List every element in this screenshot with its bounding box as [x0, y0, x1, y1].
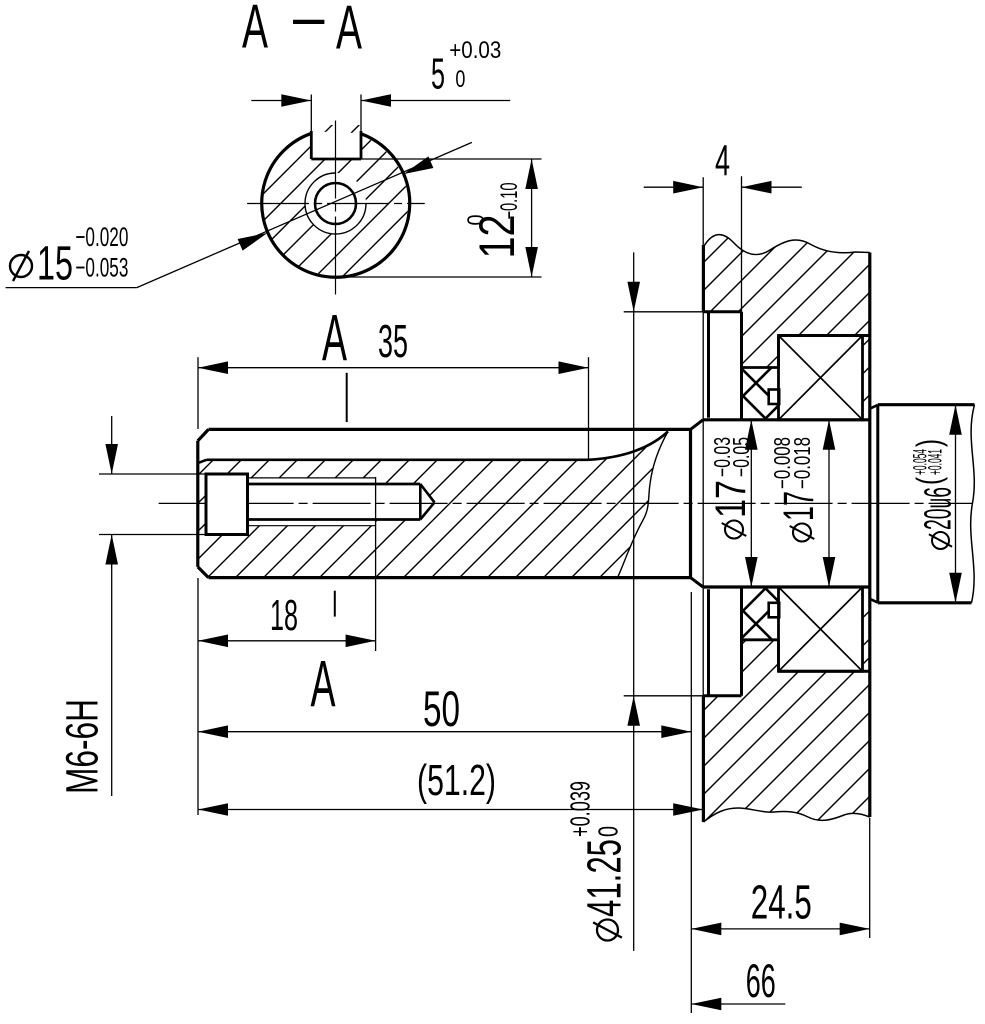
dimension 50 [690, 592, 692, 1013]
housing top wavy break edge [703, 235, 869, 255]
housing right face / shaft step dia17-dia20 [868, 253, 871, 818]
svg-text:17: 17 [707, 480, 755, 518]
tapped hole minor circle [315, 183, 356, 224]
cover plate lower [707, 589, 710, 696]
dimension 12 0/-0.10 [361, 158, 542, 160]
dimension 66 [691, 1003, 785, 1005]
bearing bore line top [779, 334, 870, 337]
hatch of shaft cross-section [250, 115, 425, 295]
centerline vertical of section circle [335, 121, 337, 297]
svg-text:A: A [242, 0, 268, 62]
section plane tick upper [346, 373, 348, 422]
shaft dia20 section [876, 405, 879, 603]
housing hatch top [700, 228, 875, 370]
svg-text:−0.10: −0.10 [496, 183, 523, 220]
keyway slot floor [311, 158, 361, 161]
shaft step face dia15->dia17 [689, 429, 692, 579]
seal cross-hatch top [740, 366, 780, 421]
svg-text:66: 66 [746, 954, 776, 1007]
thread major lines (thin) [248, 477, 376, 479]
svg-text:4: 4 [715, 137, 730, 186]
dimension dia20u6 (+0.054/+0.041) [955, 405, 957, 603]
dimension 24.5 [869, 818, 871, 938]
svg-text:): ) [911, 439, 949, 447]
dia15 text [10, 255, 32, 277]
shaft OD circle (keyway slot gap at top) [262, 133, 410, 277]
svg-text:−0.020: −0.020 [75, 222, 128, 252]
dimension (51.2) [702, 177, 704, 815]
fillet bottom [691, 578, 704, 587]
housing left face bottom [702, 696, 705, 822]
svg-text:+0.039: +0.039 [565, 781, 596, 837]
retaining ring square top [769, 390, 780, 405]
svg-text:50: 50 [423, 681, 460, 737]
svg-text:(: ( [911, 477, 949, 485]
leader dia15 -0.020/-0.053 [6, 287, 137, 289]
svg-text:A: A [311, 647, 336, 721]
svg-text:17: 17 [775, 491, 823, 521]
svg-text:A: A [322, 300, 347, 374]
broken-out section wavy line [618, 432, 669, 578]
dimension 4 [741, 176, 743, 312]
bearing bore line bottom [779, 670, 870, 673]
keyway slot walls [310, 95, 312, 160]
svg-text:+0.03: +0.03 [449, 37, 501, 64]
housing bottom wavy break edge [703, 808, 869, 822]
dimension 18 [375, 477, 377, 651]
svg-text:41.25: 41.25 [579, 839, 632, 917]
svg-text:M6-6H: M6-6H [56, 699, 107, 794]
svg-text:−0.053: −0.053 [75, 253, 128, 283]
dimension dia17 -0.03/-0.05 [750, 420, 752, 587]
svg-text:+0.041: +0.041 [926, 449, 947, 475]
bearing box bottom with X [779, 587, 863, 671]
bearing box top with X [779, 336, 863, 420]
tapped hole M6 counterbore box [206, 474, 248, 535]
retaining ring square bottom [769, 603, 780, 618]
keyway floor line [199, 460, 207, 463]
svg-text:18: 18 [270, 591, 298, 640]
cover plate upper [707, 313, 710, 418]
svg-text:0: 0 [463, 215, 490, 226]
housing left face top [702, 245, 705, 312]
svg-text:−0.05: −0.05 [728, 437, 754, 477]
svg-text:24.5: 24.5 [751, 877, 812, 930]
dimension dia17 -0.008/-0.018 [828, 420, 830, 587]
housing sliver hatch right of bearings [864, 339, 870, 345]
svg-text:20u6: 20u6 [918, 487, 960, 530]
dia20 wavy break right [971, 405, 975, 603]
svg-text:15: 15 [37, 237, 73, 290]
main axis centerline [159, 502, 972, 504]
seal seat edges top [742, 366, 779, 369]
seal cross-hatch bottom [740, 585, 780, 641]
bore dia41.25 top edge [703, 310, 741, 313]
shaft section hatch [190, 425, 680, 585]
centerline horizontal of section circle [247, 203, 425, 205]
svg-text:35: 35 [378, 315, 408, 367]
housing hatch bottom [700, 635, 875, 830]
shaft dia17 OD lines [703, 418, 870, 421]
dimension dia41.25 +0.039/0 [624, 311, 704, 313]
bore dia41.25 bottom edge [703, 694, 741, 697]
dimension M6-6H [99, 473, 206, 475]
svg-text:0: 0 [593, 826, 624, 837]
section plane tick lower [334, 591, 336, 617]
svg-text:5: 5 [431, 49, 445, 98]
svg-text:(51.2): (51.2) [417, 756, 496, 805]
svg-text:0: 0 [455, 66, 465, 93]
shaft dia15 outline [196, 441, 199, 567]
dimension 35 [197, 357, 199, 429]
drilled hole lines (thick) + cone [248, 483, 421, 486]
thread major arc (3/4 circle) [305, 173, 366, 234]
dimension 5 +0.03/0 [251, 100, 311, 102]
svg-text:A: A [336, 0, 362, 63]
svg-text:−0.018: −0.018 [789, 437, 815, 489]
seal seat edges bottom [742, 638, 779, 641]
fillet top [691, 420, 704, 430]
keyway runout curve [589, 432, 669, 460]
